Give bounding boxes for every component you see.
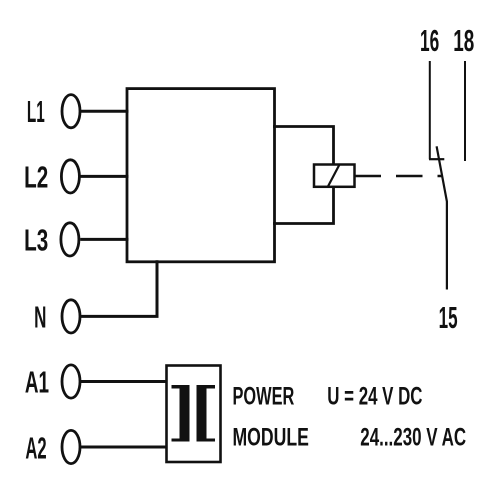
wire L1 xyxy=(80,110,128,113)
svg-text:A2: A2 xyxy=(25,430,46,465)
terminal L2 circle xyxy=(61,160,79,193)
wire A1 xyxy=(80,380,167,383)
terminal 18 line xyxy=(464,61,466,161)
svg-text:A1: A1 xyxy=(25,364,49,399)
coil top tap wire xyxy=(273,127,334,166)
wire A2 xyxy=(80,446,167,449)
mechanical link dashed wire xyxy=(355,175,443,178)
svg-text:24...230 V AC: 24...230 V AC xyxy=(360,423,466,451)
svg-text:L3: L3 xyxy=(24,222,48,257)
terminal A1 circle xyxy=(62,365,80,398)
transformer winding left xyxy=(172,385,190,442)
svg-text:15: 15 xyxy=(439,300,458,335)
svg-text:U = 24 V DC: U = 24 V DC xyxy=(327,382,422,410)
relay coil K1 xyxy=(314,165,355,187)
svg-text:N: N xyxy=(34,299,46,334)
svg-text:L1: L1 xyxy=(27,94,45,129)
svg-text:18: 18 xyxy=(453,23,474,58)
coil bottom tap wire xyxy=(273,186,334,224)
wire L2 xyxy=(80,175,128,178)
power module box xyxy=(167,366,221,463)
monitoring block xyxy=(127,89,275,262)
terminal L1 circle xyxy=(62,95,80,128)
terminal N circle xyxy=(62,300,80,333)
wire N xyxy=(80,260,157,316)
moving contact arm xyxy=(437,146,447,289)
svg-text:POWER: POWER xyxy=(233,382,295,410)
fixed contact foot xyxy=(429,158,444,160)
wire L3 xyxy=(80,238,128,241)
svg-text:MODULE: MODULE xyxy=(233,423,309,451)
terminal L3 circle xyxy=(61,223,79,256)
svg-text:L2: L2 xyxy=(24,159,48,194)
transformer winding right xyxy=(197,385,216,442)
terminal 16 line xyxy=(429,61,431,159)
svg-text:16: 16 xyxy=(420,23,439,58)
terminal A2 circle xyxy=(62,430,80,463)
